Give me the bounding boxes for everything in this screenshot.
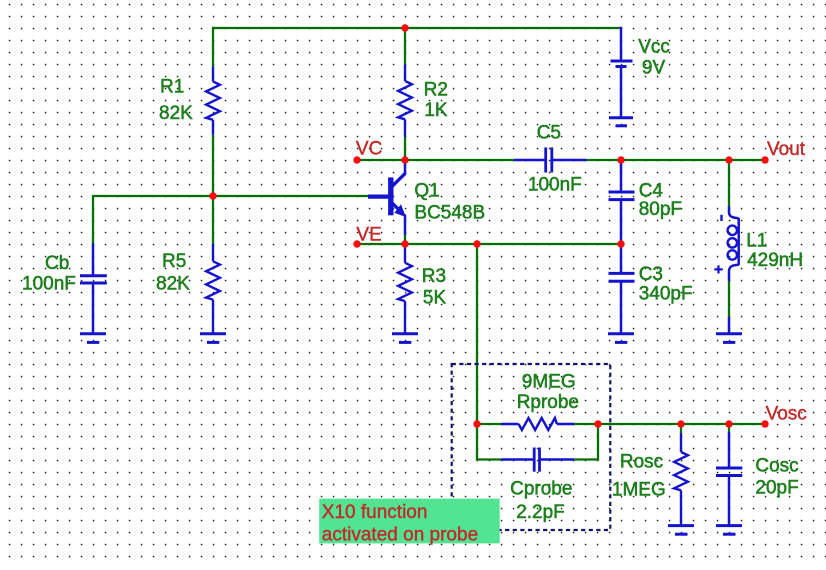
svg-text:R5: R5 [162, 251, 186, 272]
svg-text:9V: 9V [642, 57, 666, 78]
svg-text:340pF: 340pF [639, 283, 693, 304]
svg-text:1K: 1K [424, 100, 448, 121]
svg-text:VE: VE [356, 224, 381, 245]
svg-text:Q1: Q1 [414, 181, 439, 202]
svg-text:Cprobe: Cprobe [510, 479, 572, 500]
svg-text:Cb: Cb [45, 253, 69, 274]
svg-text:Vout: Vout [767, 139, 806, 160]
svg-text:R2: R2 [424, 80, 448, 101]
svg-text:activated on probe: activated on probe [322, 524, 478, 545]
svg-text:429nH: 429nH [747, 250, 803, 271]
svg-text:R3: R3 [422, 266, 446, 287]
svg-text:BC548B: BC548B [414, 203, 485, 224]
svg-text:2.2pF: 2.2pF [516, 502, 565, 523]
svg-text:Vcc: Vcc [638, 36, 670, 57]
svg-text:Rosc: Rosc [620, 452, 663, 473]
svg-text:5K: 5K [423, 288, 447, 309]
svg-text:C5: C5 [537, 123, 561, 144]
svg-text:Vosc: Vosc [766, 403, 807, 424]
svg-text:VC: VC [356, 139, 382, 160]
svg-text:100nF: 100nF [528, 174, 582, 195]
svg-text:100nF: 100nF [22, 273, 76, 294]
svg-text:L1: L1 [746, 231, 767, 252]
svg-text:9MEG: 9MEG [522, 372, 576, 393]
svg-text:20pF: 20pF [755, 478, 798, 499]
svg-text:82K: 82K [159, 103, 193, 124]
svg-text:Rprobe: Rprobe [517, 392, 579, 413]
svg-text:82K: 82K [156, 273, 190, 294]
svg-text:Cosc: Cosc [755, 455, 798, 476]
svg-text:R1: R1 [160, 76, 184, 97]
svg-text:C3: C3 [639, 264, 663, 285]
svg-text:80pF: 80pF [639, 199, 682, 220]
svg-text:X10 function: X10 function [322, 502, 428, 523]
svg-text:1MEG: 1MEG [612, 480, 666, 501]
